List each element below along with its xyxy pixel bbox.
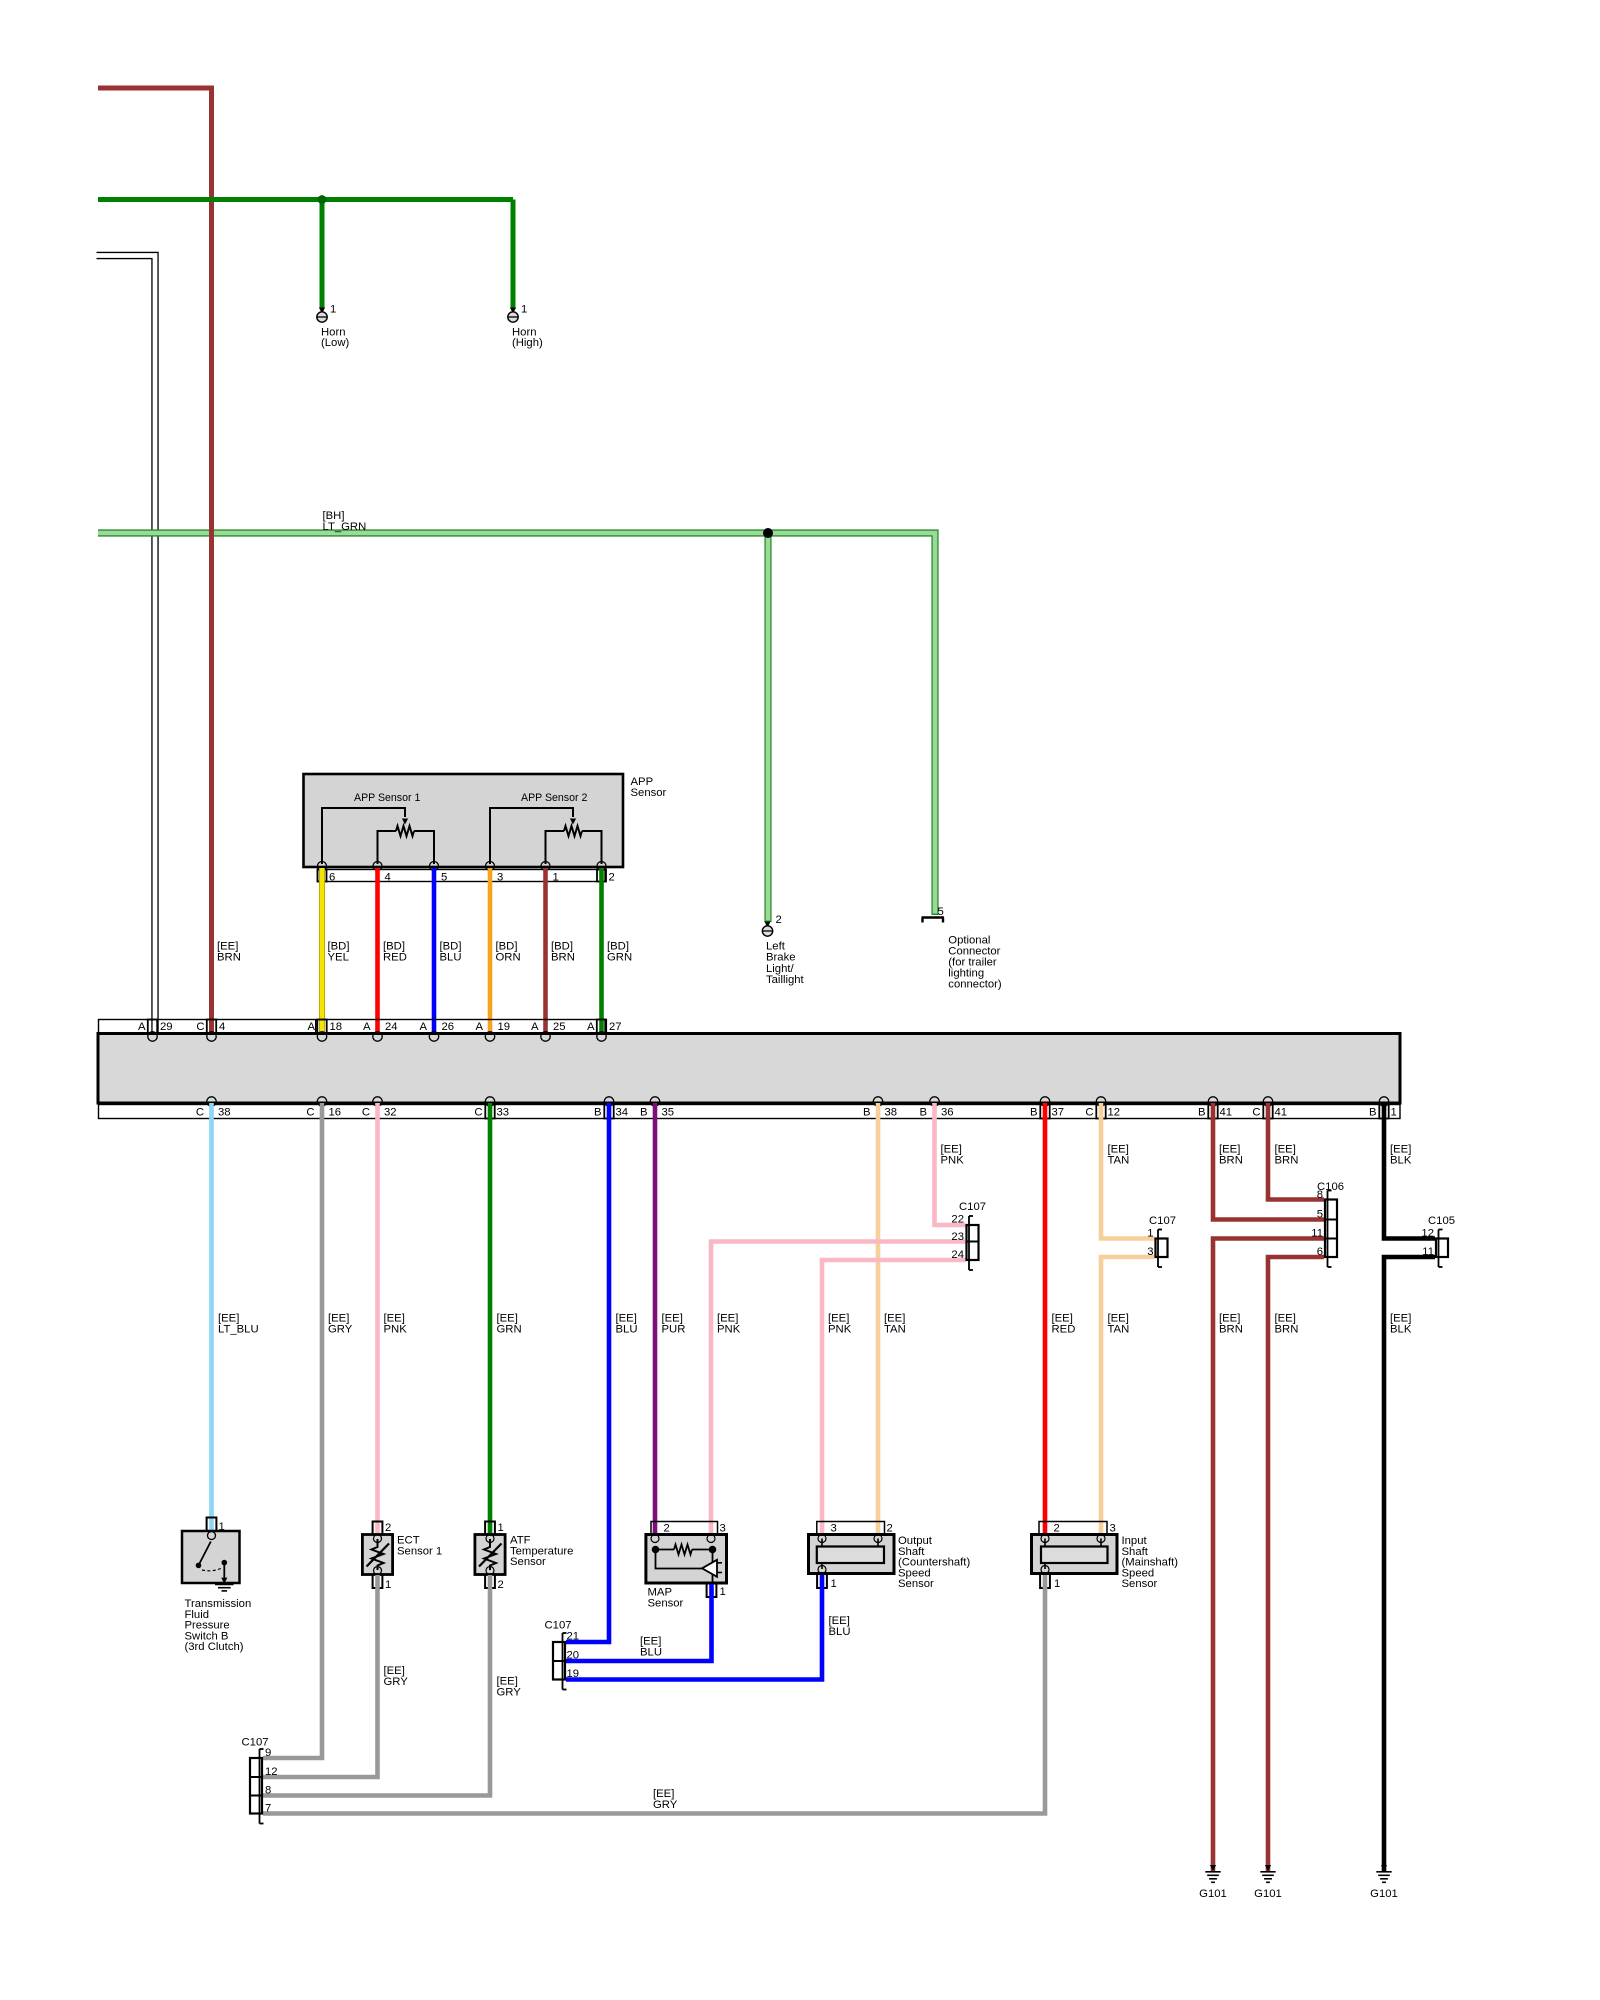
- ECT Sensor 1 box: [362, 1535, 392, 1575]
- svg-text:C: C: [1085, 1107, 1093, 1119]
- svg-text:5: 5: [938, 906, 944, 918]
- svg-text:C: C: [1252, 1107, 1260, 1119]
- wire [EE] BLK C105 pin 11 to ground G101: [1384, 1257, 1435, 1871]
- wire [EE] BLK B1 to C105 pin 12: [1384, 1103, 1435, 1239]
- MAP Sensor pin 1 cavity: [707, 1584, 717, 1598]
- connector C107 (pins 21 20 19): [562, 1633, 564, 1690]
- svg-text:LT_GRN: LT_GRN: [323, 521, 367, 533]
- svg-text:3: 3: [831, 1523, 837, 1535]
- svg-text:BLU: BLU: [829, 1626, 851, 1638]
- wire [EE] PNK C107 pin 23 to MAP Sensor pin 3: [711, 1242, 966, 1535]
- Output Shaft Speed Sensor pin 1 cavity: [817, 1574, 827, 1588]
- ECM bottom pin circles: [207, 1097, 216, 1106]
- wire [EE] GRN C33 to ATF Temperature Sensor pin 1: [488, 1103, 493, 1534]
- wire [EE] TAN B38 to Output Shaft Speed Sensor pin 2: [876, 1103, 881, 1534]
- svg-text:A: A: [363, 1021, 371, 1033]
- svg-text:5: 5: [1317, 1209, 1323, 1221]
- svg-text:C: C: [306, 1107, 314, 1119]
- svg-text:G101: G101: [1254, 1888, 1282, 1900]
- svg-text:2: 2: [776, 914, 782, 926]
- svg-text:2: 2: [1054, 1523, 1060, 1535]
- MAP Sensor box: [646, 1535, 727, 1584]
- svg-text:21: 21: [567, 1631, 580, 1643]
- wire [EE] PNK C107 pin 24 to Output Shaft Speed Sensor pin 3: [822, 1260, 966, 1534]
- Input Shaft Speed Sensor box: [1032, 1535, 1118, 1574]
- svg-text:1: 1: [1147, 1228, 1153, 1240]
- wire [EE] GRY ATF pin2 to C107 pin 8: [263, 1575, 490, 1796]
- svg-text:C: C: [196, 1107, 204, 1119]
- svg-text:3: 3: [497, 872, 503, 884]
- Output Shaft Speed Sensor box: [809, 1535, 895, 1574]
- svg-text:Taillight: Taillight: [766, 974, 805, 986]
- junction horn green: [318, 195, 327, 204]
- wire GRN horn feed horizontal: [98, 197, 513, 202]
- svg-text:22: 22: [951, 1214, 964, 1226]
- svg-text:Sensor: Sensor: [898, 1578, 934, 1590]
- svg-text:G101: G101: [1370, 1888, 1398, 1900]
- svg-text:19: 19: [498, 1021, 511, 1033]
- ground (switch case): [221, 1578, 227, 1584]
- wire [EE] BLU B34 to C107 pin 21: [566, 1103, 609, 1642]
- ground G101 (C41): [1265, 1865, 1271, 1871]
- svg-text:24: 24: [951, 1249, 964, 1261]
- ATF Temperature Sensor pin 2 cavity: [485, 1575, 495, 1589]
- MAP sensor internals: [651, 1535, 659, 1543]
- svg-text:5: 5: [441, 872, 447, 884]
- wire [EE] PNK C32 to ECT Sensor 1 pin 2: [375, 1103, 380, 1534]
- svg-text:APP Sensor 1: APP Sensor 1: [354, 792, 420, 804]
- APP Sensor box: [304, 774, 624, 867]
- svg-text:G101: G101: [1199, 1888, 1227, 1900]
- svg-text:BLU: BLU: [440, 952, 462, 964]
- ATF Temperature Sensor pin 1 cavity: [485, 1522, 495, 1535]
- svg-text:2: 2: [498, 1579, 504, 1591]
- svg-text:GRY: GRY: [384, 1676, 409, 1688]
- svg-text:35: 35: [662, 1107, 675, 1119]
- svg-text:12: 12: [1108, 1107, 1121, 1119]
- svg-text:4: 4: [219, 1021, 225, 1033]
- svg-text:1: 1: [521, 304, 527, 316]
- svg-text:GRN: GRN: [607, 952, 632, 964]
- svg-text:A: A: [138, 1021, 146, 1033]
- svg-text:3: 3: [720, 1523, 726, 1535]
- svg-text:PNK: PNK: [941, 1155, 965, 1167]
- svg-text:Sensor: Sensor: [510, 1556, 546, 1568]
- Input sensor inner element: [1041, 1535, 1049, 1543]
- svg-text:27: 27: [609, 1021, 622, 1033]
- ECM top pin circles: [148, 1032, 157, 1041]
- svg-text:A: A: [587, 1021, 595, 1033]
- svg-text:8: 8: [265, 1785, 271, 1797]
- wire [BH] LT_GRN drop to Left Brake Light: [764, 533, 771, 922]
- svg-text:34: 34: [616, 1107, 629, 1119]
- ground G101 (B1): [1381, 1865, 1387, 1871]
- svg-text:41: 41: [1220, 1107, 1233, 1119]
- ground G101 (B41): [1210, 1865, 1216, 1871]
- svg-text:BRN: BRN: [1219, 1155, 1243, 1167]
- svg-text:TAN: TAN: [1108, 1324, 1130, 1336]
- svg-text:C: C: [196, 1021, 204, 1033]
- svg-text:Sensor 1: Sensor 1: [397, 1545, 442, 1557]
- svg-text:1: 1: [553, 872, 559, 884]
- svg-text:RED: RED: [383, 952, 407, 964]
- svg-text:GRY: GRY: [653, 1799, 678, 1811]
- Input Shaft Speed Sensor pin strip: [1039, 1522, 1107, 1535]
- svg-text:A: A: [307, 1021, 315, 1033]
- wire [BD] GRN APP pin2 to ECM A27: [599, 868, 604, 1034]
- connector terminal Horn (High) pin 1: [510, 308, 516, 314]
- wire [EE] LT_BLU C38 to Transmission Fluid Pressure Switch: [209, 1103, 214, 1531]
- svg-text:4: 4: [385, 872, 391, 884]
- svg-text:Light/: Light/: [766, 963, 794, 975]
- wire [BD] BRN APP pin1 to ECM A25: [543, 868, 548, 1034]
- svg-text:connector): connector): [948, 979, 1002, 991]
- connector C107 (pins 9 12 8 7): [259, 1749, 261, 1824]
- svg-text:1: 1: [1391, 1107, 1397, 1119]
- wire [EE] BRN C106 pin 11 to ground G101: [1213, 1239, 1324, 1872]
- wire [BD] ORN APP pin3 to ECM A19: [488, 868, 493, 1034]
- ECT Sensor 1 pin 2 cavity: [373, 1522, 383, 1535]
- svg-text:Sensor: Sensor: [648, 1597, 684, 1609]
- connector C107 (pins 22 23 24): [968, 1216, 970, 1270]
- svg-text:A: A: [531, 1021, 539, 1033]
- wire [EE] TAN C12 to C107 pin 1: [1101, 1103, 1155, 1239]
- wire [EE] BLU Output pin1 to C107 pin 19: [566, 1575, 822, 1680]
- connector terminal Left Brake Light pin 2: [764, 922, 770, 928]
- wire GRN drop to Horn (High): [511, 200, 516, 310]
- svg-text:B: B: [640, 1107, 648, 1119]
- svg-text:B: B: [919, 1107, 927, 1119]
- svg-text:LT_BLU: LT_BLU: [218, 1324, 259, 1336]
- Output Shaft Speed Sensor pin strip: [817, 1522, 885, 1535]
- svg-text:BLU: BLU: [640, 1647, 662, 1659]
- svg-text:41: 41: [1275, 1107, 1288, 1119]
- APP sensor pin entry circles: [318, 862, 327, 871]
- svg-text:16: 16: [329, 1107, 342, 1119]
- svg-text:18: 18: [330, 1021, 343, 1033]
- wire [EE] BLU MAP pin1 to C107 pin 20: [566, 1584, 712, 1661]
- svg-text:9: 9: [265, 1747, 271, 1759]
- svg-text:BRN: BRN: [1275, 1324, 1299, 1336]
- svg-text:38: 38: [885, 1107, 898, 1119]
- svg-text:TAN: TAN: [1108, 1155, 1130, 1167]
- svg-text:BLK: BLK: [1390, 1155, 1412, 1167]
- svg-text:RED: RED: [1052, 1324, 1076, 1336]
- svg-text:B: B: [863, 1107, 871, 1119]
- Transmission Fluid Pressure Switch B box: [182, 1531, 240, 1583]
- APP potentiometer wiring: [490, 808, 573, 864]
- svg-text:BRN: BRN: [1219, 1324, 1243, 1336]
- svg-text:Left: Left: [766, 941, 786, 953]
- ECT thermistor symbol: [374, 1535, 382, 1543]
- Transmission Fluid Pressure Switch B pin 1 cavity: [207, 1518, 217, 1532]
- svg-text:APP: APP: [631, 776, 654, 788]
- MAP Sensor pin strip: [651, 1522, 718, 1535]
- svg-text:C: C: [474, 1107, 482, 1119]
- svg-text:YEL: YEL: [328, 952, 349, 964]
- wire [EE] BRN C106 pin 6 to ground G101: [1268, 1257, 1324, 1871]
- wire [EE] TAN C107 pin 3 to Input Shaft Speed Sensor pin 3: [1101, 1257, 1155, 1534]
- svg-text:37: 37: [1052, 1107, 1065, 1119]
- wire GRN drop to Horn (Low): [320, 200, 325, 310]
- svg-text:36: 36: [941, 1107, 954, 1119]
- svg-text:2: 2: [609, 872, 615, 884]
- wire [EE] RED B37 to Input Shaft Speed Sensor pin 2: [1043, 1103, 1048, 1534]
- svg-text:TAN: TAN: [884, 1324, 906, 1336]
- wire [EE] GRY Input pin1 to C107 pin 7: [263, 1575, 1045, 1814]
- svg-text:BRN: BRN: [551, 952, 575, 964]
- svg-text:2: 2: [887, 1523, 893, 1535]
- wire [BH] LT_GRN horizontal and drop to Optional Connector: [98, 533, 935, 915]
- svg-text:C107: C107: [1149, 1215, 1176, 1227]
- svg-text:C105: C105: [1428, 1215, 1455, 1227]
- svg-text:Sensor: Sensor: [1122, 1578, 1158, 1590]
- ECM top pin cavities: [148, 1020, 157, 1034]
- connector C106 (pins 8 5 11 6): [1327, 1191, 1329, 1268]
- svg-text:2: 2: [385, 1522, 391, 1534]
- svg-text:PUR: PUR: [662, 1324, 686, 1336]
- svg-text:1: 1: [720, 1586, 726, 1598]
- wire [EE] BRN B41 to C106 pin 5: [1213, 1103, 1324, 1220]
- svg-text:BLU: BLU: [616, 1324, 638, 1336]
- svg-text:7: 7: [265, 1803, 271, 1815]
- svg-text:GRY: GRY: [497, 1687, 522, 1699]
- ECM top connector strip: [99, 1020, 606, 1034]
- svg-text:12: 12: [265, 1766, 278, 1778]
- connector C105 (pins 12 11): [1438, 1230, 1440, 1268]
- svg-text:32: 32: [384, 1107, 397, 1119]
- svg-text:BRN: BRN: [1275, 1155, 1299, 1167]
- svg-text:ORN: ORN: [496, 952, 521, 964]
- svg-text:24: 24: [385, 1021, 398, 1033]
- wire [BD] BLU APP pin5 to ECM A26: [432, 868, 437, 1034]
- wire [EE] GRY C16 to C107 pin 9: [263, 1103, 322, 1758]
- svg-text:3: 3: [1147, 1246, 1153, 1258]
- wire [EE] PUR B35 to MAP Sensor pin 2: [653, 1103, 658, 1534]
- APP sensor connector strip: [318, 870, 606, 882]
- svg-text:C107: C107: [959, 1201, 986, 1213]
- svg-text:(Low): (Low): [321, 337, 349, 349]
- wire [BD] YEL APP pin6 to ECM A18: [319, 868, 325, 1034]
- Input Shaft Speed Sensor pin 1 cavity: [1040, 1574, 1050, 1588]
- junction LT_GRN: [763, 528, 773, 538]
- ATF thermistor symbol: [486, 1535, 494, 1543]
- svg-text:8: 8: [1317, 1189, 1323, 1201]
- svg-text:BRN: BRN: [217, 952, 241, 964]
- svg-text:PNK: PNK: [717, 1324, 741, 1336]
- svg-text:1: 1: [330, 304, 336, 316]
- svg-text:GRY: GRY: [328, 1324, 353, 1336]
- svg-text:(3rd Clutch): (3rd Clutch): [185, 1641, 244, 1653]
- svg-text:11: 11: [1422, 1246, 1434, 1258]
- svg-text:3: 3: [1110, 1523, 1116, 1535]
- svg-text:Brake: Brake: [766, 952, 796, 964]
- svg-text:33: 33: [497, 1107, 510, 1119]
- svg-text:23: 23: [951, 1231, 964, 1243]
- wire WHT double-line to ECM pin A29: [97, 256, 156, 1034]
- connector Optional Connector pin 5 bracket: [922, 916, 945, 918]
- svg-text:B: B: [1369, 1107, 1377, 1119]
- svg-text:12: 12: [1421, 1228, 1434, 1240]
- switch symbol: [208, 1532, 216, 1540]
- svg-text:Sensor: Sensor: [631, 787, 667, 799]
- svg-text:A: A: [419, 1021, 427, 1033]
- svg-text:29: 29: [160, 1021, 173, 1033]
- svg-text:B: B: [594, 1107, 602, 1119]
- ECM bottom connector strip: [99, 1105, 1401, 1119]
- svg-text:2: 2: [664, 1523, 670, 1535]
- ATF Temperature Sensor box: [475, 1535, 505, 1575]
- svg-text:19: 19: [567, 1668, 580, 1680]
- svg-text:26: 26: [442, 1021, 455, 1033]
- Output sensor inner element: [818, 1535, 826, 1543]
- svg-text:1: 1: [498, 1522, 504, 1534]
- wire [EE] GRY ECT pin1 to C107 pin 12: [263, 1575, 378, 1777]
- svg-text:20: 20: [567, 1650, 580, 1662]
- svg-text:6: 6: [329, 872, 335, 884]
- ECT Sensor 1 pin 1 cavity: [373, 1575, 383, 1589]
- wire [BD] RED APP pin4 to ECM A24: [375, 868, 380, 1034]
- svg-text:38: 38: [218, 1107, 231, 1119]
- svg-text:25: 25: [553, 1021, 566, 1033]
- svg-text:1: 1: [385, 1579, 391, 1591]
- svg-text:PNK: PNK: [828, 1324, 852, 1336]
- svg-text:11: 11: [1311, 1228, 1323, 1240]
- ECM bottom pin cavities: [485, 1105, 494, 1119]
- svg-text:C: C: [362, 1107, 370, 1119]
- wire [EE] PNK B36 to C107 pin 22: [935, 1103, 966, 1225]
- svg-text:BLK: BLK: [1390, 1324, 1412, 1336]
- svg-text:PNK: PNK: [384, 1324, 408, 1336]
- svg-text:B: B: [1030, 1107, 1038, 1119]
- connector terminal Horn (Low) pin 1: [319, 308, 325, 314]
- wire [EE] BRN C41 to C106 pin 8: [1268, 1103, 1324, 1200]
- svg-text:A: A: [475, 1021, 483, 1033]
- svg-text:GRN: GRN: [497, 1324, 522, 1336]
- svg-text:B: B: [1198, 1107, 1206, 1119]
- svg-text:6: 6: [1317, 1246, 1323, 1258]
- svg-text:APP Sensor 2: APP Sensor 2: [521, 792, 587, 804]
- wire [EE] BRN from top-left to ECM pin C4: [98, 88, 212, 1034]
- ECM/PCM module bar: [98, 1034, 1400, 1104]
- svg-text:(High): (High): [512, 337, 543, 349]
- svg-text:1: 1: [1054, 1578, 1060, 1590]
- APP potentiometer wiring: [322, 808, 405, 864]
- connector C107 (pins 1 3): [1157, 1230, 1159, 1268]
- svg-text:1: 1: [831, 1578, 837, 1590]
